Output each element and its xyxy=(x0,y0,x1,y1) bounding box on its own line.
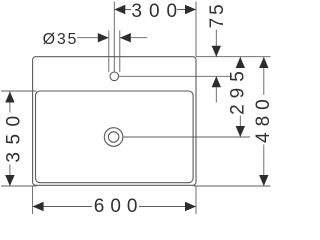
Ø35 right arrow (left-pointing) xyxy=(120,33,131,42)
drain center extension (295 dim) xyxy=(123,136,250,138)
75 top arrow (down) xyxy=(212,46,221,57)
480 dimension line lower segment xyxy=(263,145,265,187)
300 dimension line left segment xyxy=(114,9,131,11)
295 dimension line lower segment xyxy=(239,116,241,138)
svg-text:295: 295 xyxy=(227,65,248,115)
right edge extension up (300 dim) xyxy=(195,2,197,57)
faucet hole centerline extension xyxy=(113,2,115,72)
295 top arrow (up) xyxy=(236,57,245,68)
295 bottom arrow (down) xyxy=(236,126,245,137)
svg-text:75: 75 xyxy=(207,1,228,28)
front edge extension right (480 dim) xyxy=(194,185,271,187)
Ø35 leader line left xyxy=(77,37,99,39)
back edge extension right (75/295/480 dims) xyxy=(196,56,271,58)
svg-text:Ø35: Ø35 xyxy=(43,31,79,48)
front edge extension left (350 dim) xyxy=(1,185,37,187)
bowl top extension left (350 dim) xyxy=(1,90,37,92)
75 bottom arrow (up) xyxy=(212,76,221,87)
480 bottom arrow (down) xyxy=(259,175,268,186)
480 dimension line upper segment xyxy=(263,57,265,95)
basin bowl rounded rect xyxy=(36,91,194,183)
300 dimension line right segment xyxy=(177,9,196,11)
Ø35 leader tail right xyxy=(120,37,147,39)
350 dimension line lower segment xyxy=(9,165,11,187)
300 right arrow xyxy=(185,5,196,14)
svg-text:350: 350 xyxy=(3,108,24,162)
350 dimension line upper segment xyxy=(9,92,11,113)
75 dimension line upper segment xyxy=(215,30,217,57)
600 right extension line xyxy=(195,186,197,214)
hole center horizontal extension (75 dim) xyxy=(119,75,232,77)
350 bottom arrow (down) xyxy=(5,175,14,186)
faucet hole circle xyxy=(110,72,119,81)
drain inner circle xyxy=(108,132,118,142)
300 left arrow xyxy=(114,5,125,14)
600 left arrow xyxy=(33,202,44,211)
hole right tangent extension (Ø35) xyxy=(119,31,121,73)
75 dimension tail below xyxy=(215,76,217,102)
295 dimension line upper segment xyxy=(239,57,241,68)
basin outer rim rect xyxy=(33,57,196,186)
svg-text:300: 300 xyxy=(131,1,184,22)
600 left extension line xyxy=(32,186,34,214)
drain outer circle xyxy=(104,128,123,147)
480 top arrow (up) xyxy=(259,57,268,68)
hole left tangent extension (Ø35) xyxy=(108,31,110,73)
svg-text:480: 480 xyxy=(253,93,273,143)
600 dimension line right segment xyxy=(139,206,196,208)
600 right arrow xyxy=(185,202,196,211)
350 top arrow (up) xyxy=(5,92,14,103)
svg-text:600: 600 xyxy=(94,196,144,217)
600 dimension line left segment xyxy=(33,206,92,208)
Ø35 left arrow (right-pointing) xyxy=(98,33,109,42)
